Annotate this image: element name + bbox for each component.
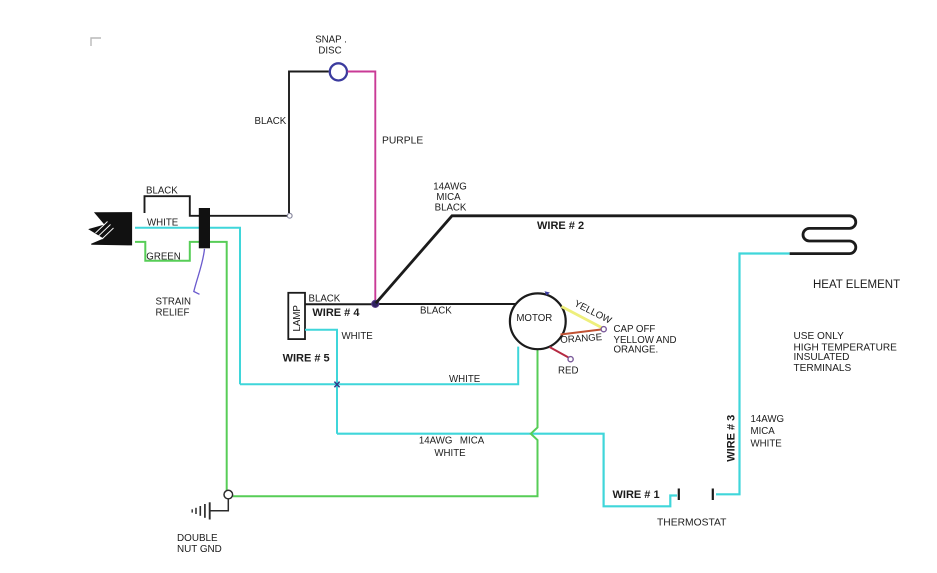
svg-text:WHITE: WHITE [342,331,374,342]
wire red motor lead [550,347,569,358]
wire #1 white thermostat-to-junction (cyan) [337,434,677,507]
svg-text:WIRE # 1: WIRE # 1 [613,489,660,501]
label RED [558,366,578,377]
motor M1 [510,293,566,349]
svg-text:NUT GND: NUT GND [177,544,222,555]
label YELLOW (rotated) [572,298,614,327]
svg-text:THERMOSTAT: THERMOSTAT [657,518,727,529]
svg-text:WIRE # 5: WIRE # 5 [283,352,330,364]
label DOUBLE NUT GND [177,533,222,555]
label WIRE # 1 [613,489,660,501]
node B (purple/black junction) [372,300,379,307]
wire purple snap-disc-to-node [348,72,376,303]
wire black node-to-motor [375,303,516,305]
label WIRE # 2 [537,220,584,232]
label BLACK (motor wire) [420,306,452,317]
label CAP OFF YELLOW AND ORANGE. [614,324,677,355]
wire black node-to-snap-disc [289,72,329,214]
svg-text:RED: RED [558,366,578,377]
svg-text:WHITE: WHITE [434,448,466,459]
wire white heat-element-to-thermostat (cyan) [716,254,790,495]
node C (white junction marker) [334,382,339,388]
label WHITE (plug) [147,218,179,229]
red terminal [568,357,573,362]
label ORANGE [560,332,603,346]
label 14AWG MICA BLACK [433,181,467,213]
svg-text:BLACK: BLACK [435,203,467,214]
wire #4 black lamp-to-node [305,303,375,305]
strain relief pointer [194,249,205,294]
lamp L1 [288,293,305,339]
thermostat TH1 contact left [678,489,680,501]
label PURPLE [382,136,423,147]
cap terminal (yellow/orange) [601,327,606,332]
svg-text:BLACK: BLACK [255,116,287,127]
label BLACK (lamp) [309,293,341,304]
wire white junction-to-motor (cyan) [240,347,518,385]
svg-text:WIRE # 3: WIRE # 3 [726,415,738,462]
svg-text:BLACK: BLACK [309,293,341,304]
wire white plug-to-junction (cyan) [135,228,240,384]
svg-text:CAP OFF: CAP OFF [614,324,656,335]
plug P1 [89,213,131,245]
svg-text:14AWG MICA: 14AWG MICA [419,436,485,447]
label WHITE (lamp) [342,331,374,342]
thermostat TH1 contact right [712,489,714,501]
svg-text:STRAIN: STRAIN [156,297,192,308]
label 14AWG MICA WHITE (right) [751,414,785,449]
strain relief SR1 [199,208,210,248]
ground symbol [192,499,228,520]
scan artifact top-left [91,38,101,46]
wire white lamp-to-junction (cyan) [305,330,337,434]
label WIRE # 3 (vertical) [726,415,738,462]
svg-text:GREEN: GREEN [146,252,180,263]
label WHITE (junction) [449,374,481,385]
label USE ONLY HIGH TEMPERATURE INSULATED TERMINALS [794,331,898,374]
svg-text:USE ONLY: USE ONLY [794,331,845,342]
motor pin mark (blue) [545,291,550,295]
wire yellow motor lead [562,307,602,328]
label GREEN [146,252,180,263]
svg-text:PURPLE: PURPLE [382,136,423,147]
label THERMOSTAT [657,518,727,529]
svg-text:DOUBLE: DOUBLE [177,533,218,544]
svg-text:MICA: MICA [751,426,776,437]
svg-text:WHITE: WHITE [147,218,179,229]
svg-text:WHITE: WHITE [751,438,783,449]
svg-text:BLACK: BLACK [420,306,452,317]
svg-text:14AWG: 14AWG [433,181,467,192]
label 14AWG MICA WHITE (center) [419,436,485,460]
label STRAIN RELIEF [156,297,192,319]
wire #2 black diagonal+heat element [376,216,856,303]
svg-text:BLACK: BLACK [146,185,178,196]
svg-text:HEAT ELEMENT: HEAT ELEMENT [813,279,900,291]
svg-text:WIRE # 4: WIRE # 4 [312,307,360,319]
label HEAT ELEMENT [813,279,900,291]
label SNAP DISC [315,35,347,57]
svg-text:DISC: DISC [318,45,341,56]
label BLACK (snap disc) [255,116,287,127]
svg-text:14AWG: 14AWG [751,414,785,425]
wire green motor-to-ground [233,350,538,496]
label WIRE # 4 [312,307,360,319]
svg-text:MOTOR: MOTOR [516,313,552,324]
svg-text:LAMP: LAMP [292,305,303,331]
label WIRE # 5 [283,352,330,364]
label BLACK (plug) [146,185,178,196]
svg-text:WHITE: WHITE [449,374,481,385]
svg-text:TERMINALS: TERMINALS [794,363,852,374]
wire orange motor lead [561,330,602,335]
wire green plug-to-ground [135,242,227,490]
svg-text:INSULATED: INSULATED [794,352,850,363]
svg-text:SNAP .: SNAP . [315,35,347,46]
svg-text:ORANGE.: ORANGE. [614,344,659,355]
svg-text:RELIEF: RELIEF [156,307,190,318]
wire black plug-to-node [145,196,288,216]
svg-text:MICA: MICA [436,192,461,203]
ground node circle [224,490,233,499]
svg-text:WIRE # 2: WIRE # 2 [537,220,584,232]
snap disc S1 [330,63,347,80]
node A (junction black/snap-disc) [287,213,292,218]
